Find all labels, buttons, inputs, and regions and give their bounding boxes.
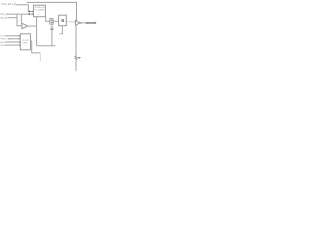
wire W13: A2 bottom down to resistor R2 — [75, 26, 77, 57]
wire W16: C1 bottom lead — [51, 30, 53, 46]
resistor R2 (squiggle) — [75, 56, 77, 60]
svg-text:RC 32KHZ: RC 32KHZ — [35, 9, 45, 11]
wire W14: R2 to bottom edge — [75, 60, 77, 71]
R2 value label — [78, 56, 81, 59]
wire W6: A1 output to feedback node — [28, 25, 37, 27]
wire W1: OSC_EN to box U1 input — [16, 5, 34, 12]
capacitor C1 plates — [50, 28, 53, 29]
wire W20 into U3 — [6, 41, 20, 43]
box U2: comparator — [59, 15, 67, 26]
svg-text:CK_B: CK_B — [0, 17, 7, 20]
wire W8: U1 output down and right to resistor R1 — [46, 17, 50, 22]
wire W22: U3 output right, down, right, down off-canvas — [31, 41, 41, 53]
wire W2: CK_A to box U1 input — [7, 13, 34, 15]
pin arrow into U1 top input — [32, 11, 34, 13]
inverter bubble on A2 output — [80, 22, 82, 24]
driver A2 (triangle) — [76, 20, 80, 25]
wire W10: U2 bottom stub — [60, 26, 63, 34]
wire W5: tap from W2 down to buffer A1 top — [20, 14, 22, 24]
wire W21 into U3 — [5, 44, 20, 46]
power rail (top) — [27, 2, 77, 20]
wire W9: R1 to comparator U2 — [53, 20, 59, 22]
junction dot on W2 — [29, 13, 30, 14]
wire W7: U1 bottom tap down to feedback line — [36, 17, 38, 46]
svg-text:OSC_EN 1: OSC_EN 1 — [1, 4, 13, 6]
bus slash on OSC_IN wire — [14, 3, 16, 6]
box U3: control block — [20, 34, 30, 50]
wire W15: feedback horizontal — [37, 45, 56, 47]
box U1: RC oscillator — [34, 5, 46, 17]
wire W23: faint continuation down — [39, 53, 41, 61]
svg-text:CK_A: CK_A — [0, 13, 7, 16]
wire W4: tap from W2 down to buffer A1 input — [17, 14, 22, 26]
wire W3: CK_B to buffer input wire — [7, 17, 17, 19]
pin arrow into U1 lower input — [32, 13, 34, 15]
resistor R1 (box) — [50, 19, 53, 25]
wire W17: C1 top lead to R1 node — [51, 24, 53, 28]
wire W12: A2 output to pad label — [81, 22, 85, 24]
buffer A1 (triangle) — [22, 23, 28, 28]
wire W18 into U3 — [5, 35, 20, 37]
svg-text:RCC: RCC — [0, 36, 5, 38]
junction dot on W1 — [29, 11, 30, 12]
wire W11: U2 output to driver A2 — [66, 21, 75, 23]
wire W19 into U3 — [8, 38, 20, 40]
circuit schematic: low-speed oscillator clock block diagram — [0, 0, 97, 71]
svg-text:CTRL: CTRL — [22, 42, 28, 44]
node OSC_OUT label — [86, 22, 97, 24]
